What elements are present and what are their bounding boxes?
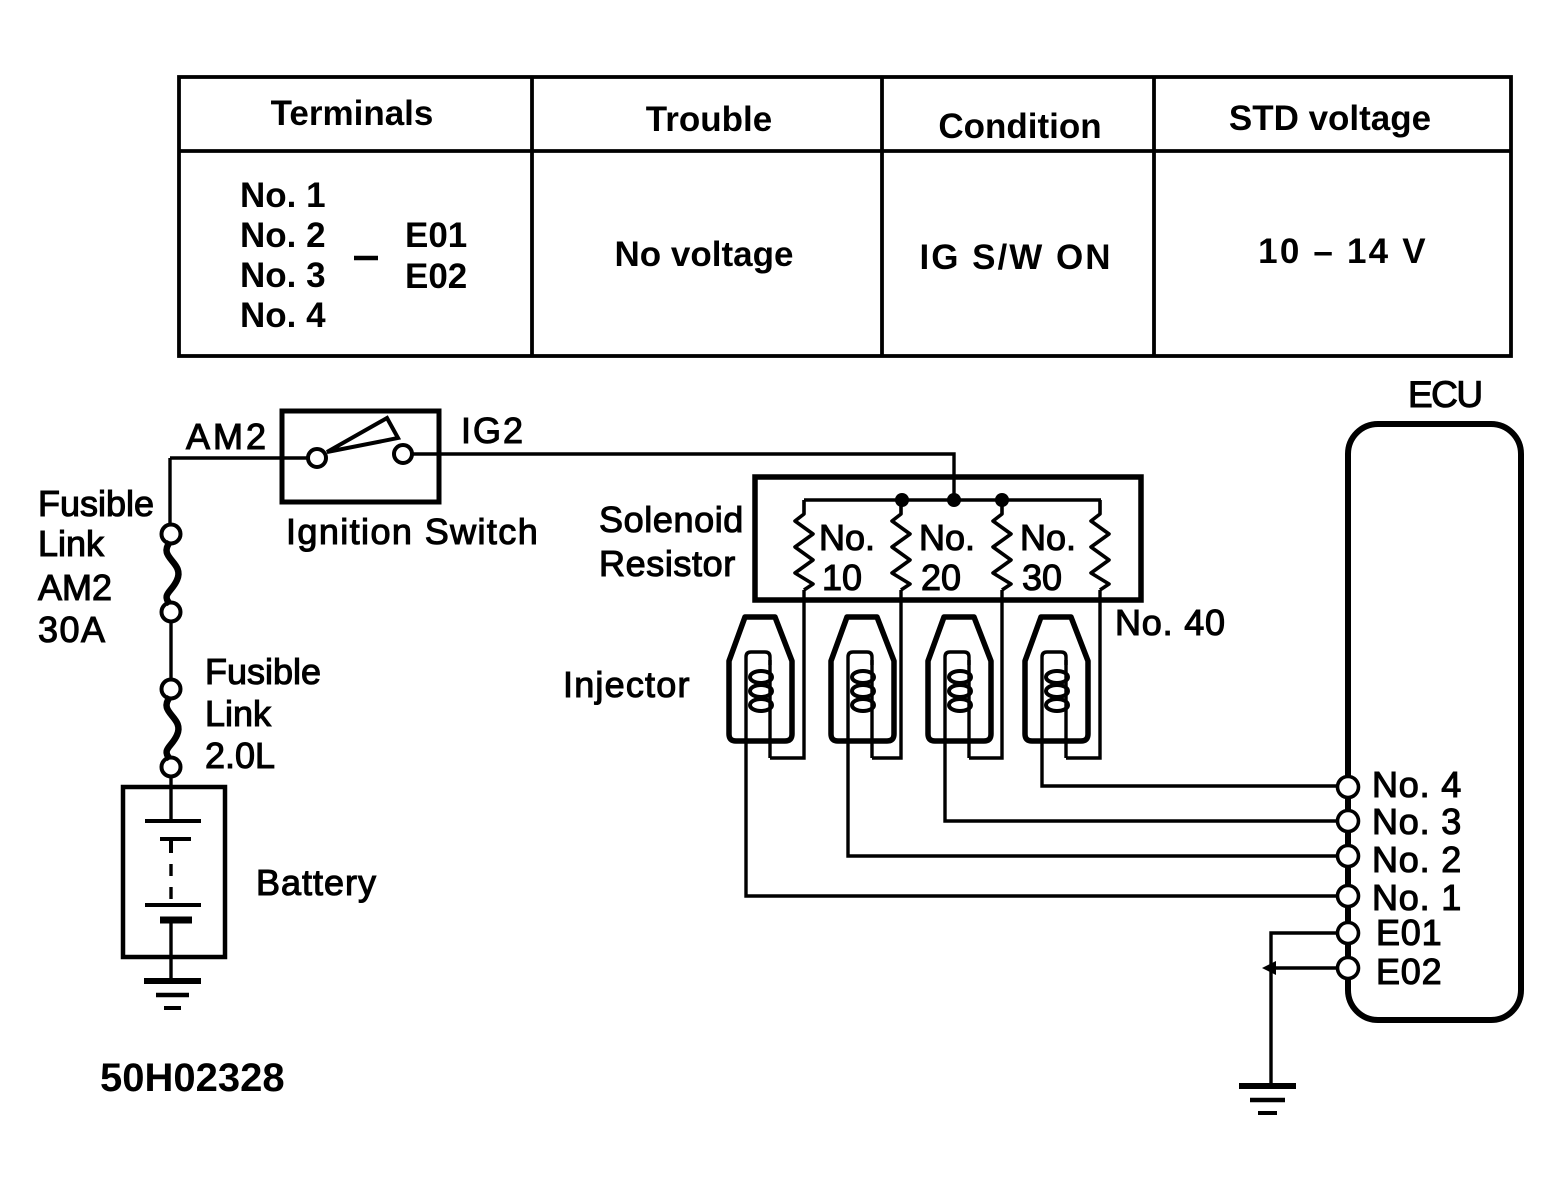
svg-text:Battery: Battery (256, 862, 377, 903)
svg-text:No. 40: No. 40 (1115, 602, 1226, 643)
wire injector 1 to ECU No. 1 (746, 741, 1337, 896)
svg-text:10: 10 (822, 557, 862, 598)
wire E02 to ground (1271, 968, 1337, 1083)
ECU label (1408, 374, 1482, 415)
svg-text:10 – 14 V: 10 – 14 V (1258, 232, 1428, 271)
svg-text:30A: 30A (38, 609, 107, 650)
resistor No. 10 (795, 500, 813, 590)
node AM2 label (186, 416, 269, 457)
svg-text:E02: E02 (405, 257, 467, 296)
table header text (271, 94, 1432, 146)
svg-text:No.: No. (819, 517, 875, 558)
svg-text:No. 1: No. 1 (240, 176, 326, 215)
wire E01 to ground (1271, 933, 1337, 968)
svg-text:Fusible: Fusible (38, 483, 154, 524)
wire resistor 10 down (770, 590, 804, 758)
injector 2 (831, 617, 894, 741)
injector 4 (1025, 617, 1088, 741)
svg-text:E01: E01 (1376, 912, 1442, 953)
figure number 50H02328 (100, 1056, 285, 1100)
fusible link 2.0L (162, 680, 181, 777)
svg-text:50H02328: 50H02328 (100, 1056, 285, 1100)
wire injector 1 right terminal (768, 660, 771, 758)
svg-text:Injector: Injector (563, 664, 691, 705)
resistor value labels (819, 517, 1076, 598)
wire resistor 30 down (969, 590, 1002, 758)
wire IG2 to solenoid resistor (439, 454, 954, 500)
battery plates (145, 821, 201, 920)
svg-text:20: 20 (921, 557, 961, 598)
svg-text:No. 2: No. 2 (1372, 839, 1462, 880)
ignition switch box (282, 411, 439, 502)
ECU terminal circles (1338, 777, 1359, 979)
svg-text:AM2: AM2 (186, 416, 269, 457)
table body text (240, 176, 1428, 335)
svg-text:Condition: Condition (938, 107, 1101, 146)
junction E01/E02 (1262, 961, 1276, 975)
svg-text:Link: Link (205, 693, 272, 734)
node IG2 label (461, 410, 525, 451)
svg-text:No. 4: No. 4 (240, 296, 326, 335)
fusible link AM2 30A (162, 525, 181, 622)
wire injector 4 right terminal (1064, 660, 1067, 758)
wire injector 2 right terminal (870, 660, 873, 758)
ground (battery) (144, 981, 201, 1008)
junction dots on bus (895, 493, 1009, 507)
svg-text:Link: Link (38, 523, 105, 564)
svg-text:ECU: ECU (1408, 374, 1482, 415)
wire resistor bus (804, 498, 1101, 502)
wire resistor 40 down (1066, 590, 1100, 758)
svg-text:E01: E01 (405, 216, 467, 255)
battery box (123, 787, 225, 957)
svg-text:No.: No. (1020, 517, 1076, 558)
ground (ECU) (1239, 1086, 1296, 1113)
wire AM2 down to fusible link (168, 458, 171, 525)
svg-text:STD voltage: STD voltage (1229, 99, 1431, 138)
solenoid resistor box (755, 477, 1141, 600)
wire injector 3 to ECU No. 3 (945, 741, 1337, 821)
fusible link 2.0L label (205, 651, 321, 776)
svg-text:No. 2: No. 2 (240, 216, 326, 255)
svg-text:AM2: AM2 (38, 567, 112, 608)
svg-text:E02: E02 (1376, 951, 1442, 992)
solenoid resistor label (599, 499, 744, 584)
wire injector 3 right terminal (967, 660, 970, 758)
svg-text:No.: No. (919, 517, 975, 558)
injector label (563, 664, 691, 705)
resistor No. 40 label (1115, 602, 1226, 643)
svg-text:No voltage: No voltage (615, 235, 794, 274)
svg-text:Trouble: Trouble (646, 100, 772, 139)
svg-text:IG S/W ON: IG S/W ON (920, 238, 1113, 277)
fusible link AM2 30A label (38, 483, 154, 650)
injector 1 (729, 617, 792, 741)
svg-text:Ignition Switch: Ignition Switch (286, 511, 539, 552)
wire battery to ground (169, 923, 172, 980)
svg-text:Solenoid: Solenoid (599, 499, 744, 540)
svg-text:Terminals: Terminals (271, 94, 434, 133)
battery label (256, 862, 377, 903)
ignition switch label (286, 511, 539, 552)
wire between fusible links (169, 621, 172, 680)
svg-text:Fusible: Fusible (205, 651, 321, 692)
svg-text:No. 3: No. 3 (1372, 801, 1462, 842)
ECU box (1348, 424, 1521, 1020)
resistor No. 20 (892, 500, 910, 590)
wire resistor 20 down (872, 590, 901, 758)
svg-text:No. 3: No. 3 (240, 256, 326, 295)
svg-text:IG2: IG2 (461, 410, 525, 451)
table: terminals/trouble/condition/std-voltage (179, 77, 1511, 356)
ignition switch contacts and lever (282, 418, 439, 467)
svg-text:2.0L: 2.0L (205, 735, 275, 776)
wire fusible link to battery (169, 776, 172, 821)
wire AM2 to ignition switch (170, 456, 282, 459)
svg-text:No. 4: No. 4 (1372, 764, 1462, 805)
svg-text:30: 30 (1022, 557, 1062, 598)
injector 3 (928, 617, 991, 741)
ECU terminal labels (1372, 764, 1462, 992)
wire injector 2 to ECU No. 2 (848, 741, 1337, 856)
resistor No. 40 (1091, 500, 1109, 590)
svg-text:Resistor: Resistor (599, 543, 736, 584)
resistor No. 30 (993, 500, 1011, 590)
wire injector 4 to ECU No. 4 (1042, 741, 1337, 786)
